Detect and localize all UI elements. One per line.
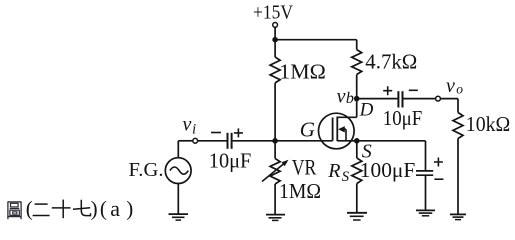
svg-text:): )	[91, 196, 98, 220]
svg-text:a: a	[110, 196, 120, 221]
svg-text:v: v	[446, 75, 455, 97]
svg-text:1MΩ: 1MΩ	[279, 59, 326, 83]
svg-text:10kΩ: 10kΩ	[466, 112, 511, 136]
svg-text:b: b	[346, 90, 354, 107]
svg-text:o: o	[456, 82, 463, 97]
svg-text:10μF: 10μF	[383, 106, 423, 130]
svg-text:): )	[126, 196, 133, 220]
svg-text:S: S	[362, 140, 372, 162]
svg-text:4.7kΩ: 4.7kΩ	[365, 49, 417, 73]
svg-text:v: v	[183, 113, 192, 135]
svg-text:D: D	[359, 100, 374, 121]
svg-text:F.G.: F.G.	[129, 159, 164, 181]
svg-text:+15V: +15V	[253, 2, 293, 24]
svg-text:VR: VR	[292, 155, 317, 180]
svg-text:1MΩ: 1MΩ	[279, 179, 321, 203]
svg-text:10μF: 10μF	[209, 149, 252, 173]
svg-text:i: i	[192, 122, 196, 138]
svg-text:(: (	[100, 196, 107, 220]
svg-text:S: S	[342, 169, 350, 185]
svg-text:v: v	[337, 85, 346, 107]
svg-text:R: R	[327, 160, 340, 182]
svg-text:G: G	[300, 117, 315, 141]
svg-text:(: (	[26, 196, 33, 220]
